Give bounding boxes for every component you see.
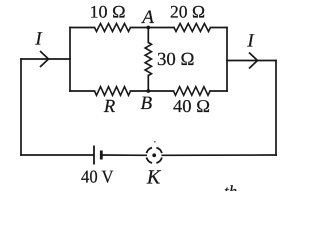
arrow on right wire (current I) [249,53,258,69]
resistor 30 ohm (vertical) [145,43,151,76]
wire: middle branch above 30 ohm [147,28,149,43]
wire: left bus vertical [69,28,71,92]
svg-text:30 Ω: 30 Ω [157,50,195,70]
svg-text:A: A [140,7,154,28]
wire: bottom rail battery to key [102,154,146,156]
key K: circle with gaps [147,148,162,163]
wire: top rail segment right [211,27,228,29]
svg-text:th: th [224,182,237,191]
wire: left outer vertical [20,59,22,155]
wire: top rail segment middle (through node A) [131,27,175,29]
resistor 40 ohm [174,87,211,96]
svg-text:40 Ω: 40 Ω [173,96,210,116]
svg-text:20 Ω: 20 Ω [170,2,205,22]
resistor 10 ohm [95,24,131,32]
wire: bottom rail key to right corner [162,154,276,156]
wire: bottom rail segment left [70,90,95,92]
wire: left feed horizontal [21,58,70,60]
key K: center dot [152,153,156,157]
resistor 20 ohm [174,24,211,32]
key K: small speck above [154,141,156,143]
svg-text:40 V: 40 V [81,167,114,187]
node B junction dot [146,89,150,93]
wire: right outer vertical [275,61,277,156]
wire: bottom rail segment right [210,90,227,92]
node A junction dot [146,26,150,30]
wire: bottom rail segment middle (through node B) [131,90,174,92]
wire: right feed horizontal [227,60,276,62]
svg-text:10 Ω: 10 Ω [90,2,126,22]
battery 40 V: short plate [100,151,103,160]
wire: bottom rail left (to battery) [21,154,93,156]
svg-text:B: B [140,93,152,114]
svg-text:K: K [146,166,162,188]
wire: top rail segment left [70,27,95,29]
resistor R [95,87,131,96]
svg-text:R: R [103,97,115,117]
arrow on left wire (current I) [40,51,49,67]
wire: middle branch below 30 ohm [147,76,149,92]
wire: right bus vertical [226,28,228,92]
battery 40 V: long plate [93,146,95,165]
